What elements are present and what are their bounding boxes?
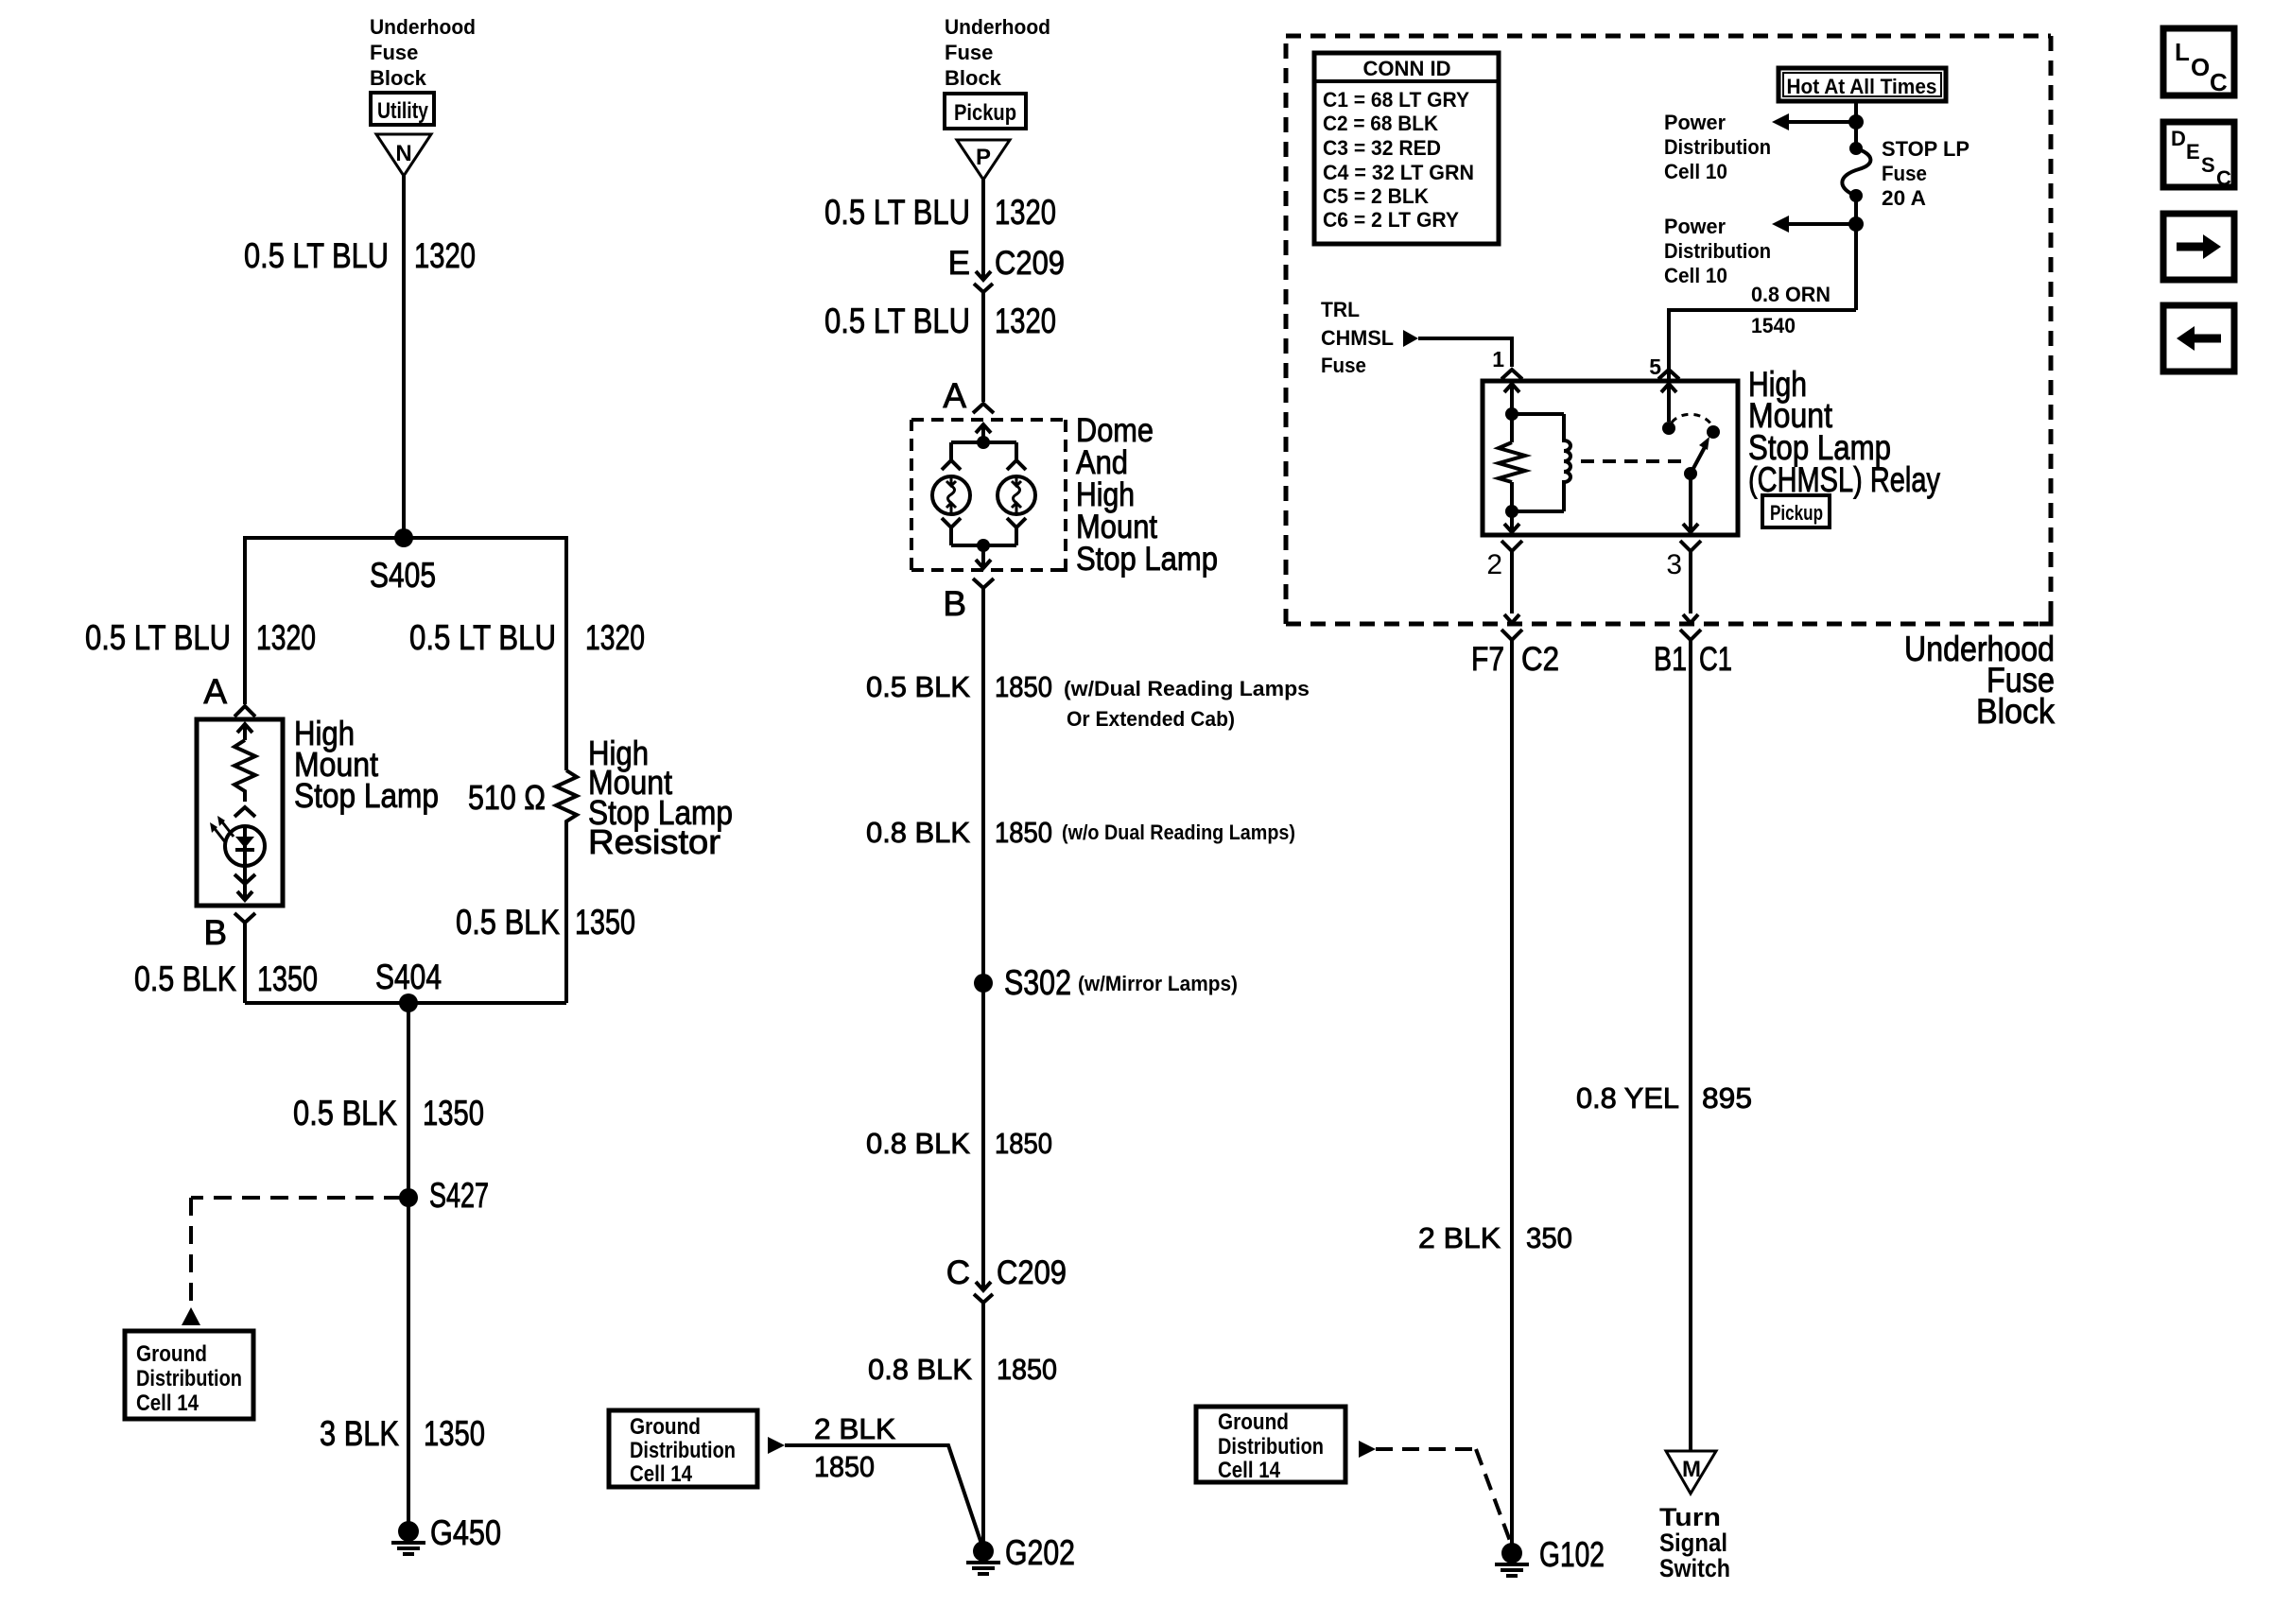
svg-text:0.5 BLK: 0.5 BLK — [134, 959, 236, 998]
svg-text:S404: S404 — [375, 958, 442, 996]
dome bulb 1 lower connector — [942, 518, 961, 545]
svg-text:1320: 1320 — [585, 618, 645, 657]
in-line connector E C209 — [948, 245, 1065, 292]
wire label 0.8 YEL 895 — [1576, 1081, 1752, 1114]
svg-text:895: 895 — [1702, 1081, 1752, 1114]
svg-text:0.5 LT BLU: 0.5 LT BLU — [244, 236, 389, 275]
svg-text:C209: C209 — [995, 245, 1065, 282]
svg-text:0.8 YEL: 0.8 YEL — [1576, 1081, 1679, 1114]
svg-text:Hot At All Times: Hot At All Times — [1787, 75, 1937, 98]
dome and high mount stop lamp dashed box — [911, 418, 1066, 422]
svg-text:O: O — [2191, 53, 2210, 81]
wire S404 to G450 — [407, 1003, 410, 1531]
wire from hot at all times — [1854, 101, 1858, 148]
wire C209 to dome lamp — [981, 292, 985, 402]
svg-text:N: N — [395, 141, 411, 166]
svg-text:3 BLK: 3 BLK — [320, 1414, 399, 1453]
relay switch blade — [1684, 437, 1709, 480]
svg-text:Power: Power — [1664, 111, 1726, 134]
svg-text:0.5 BLK: 0.5 BLK — [866, 670, 970, 703]
svg-text:C: C — [946, 1254, 970, 1291]
power distribution arrow 1 — [1772, 113, 1864, 130]
CONN ID table — [1314, 53, 1499, 244]
svg-text:Cell 10: Cell 10 — [1664, 160, 1727, 183]
wire S404 bracket — [245, 1001, 566, 1005]
svg-text:20 A: 20 A — [1882, 186, 1926, 210]
connector F7 C2 — [1471, 630, 1559, 1553]
svg-text:3: 3 — [1666, 549, 1682, 580]
svg-text:1850: 1850 — [995, 1127, 1052, 1160]
wire label 0.8 ORN 1540 — [1751, 283, 1831, 337]
svg-text:1850: 1850 — [995, 816, 1052, 849]
LOC icon box — [2163, 28, 2234, 96]
svg-text:Stop Lamp: Stop Lamp — [1076, 541, 1218, 578]
wire label 0.5 LT BLU 1320 right branch — [409, 618, 645, 657]
svg-text:1540: 1540 — [1751, 314, 1796, 337]
pin 2 connector Y — [1501, 541, 1522, 613]
wire label 0.8 BLK 1850 — [868, 1353, 1057, 1386]
underhood fuse block (pickup) label — [945, 15, 1050, 90]
svg-text:B: B — [203, 913, 227, 952]
svg-text:350: 350 — [1526, 1221, 1572, 1254]
lamp internal chevron — [234, 807, 255, 817]
svg-text:2 BLK: 2 BLK — [1418, 1221, 1501, 1254]
fuse STOP LP 20A — [1842, 142, 1870, 202]
dashed reference wire to G102 — [1376, 1447, 1476, 1451]
svg-text:1350: 1350 — [575, 903, 635, 942]
svg-text:Distribution: Distribution — [1218, 1434, 1324, 1460]
splice S405 — [370, 528, 436, 595]
power distribution cell 10 label 2 — [1664, 215, 1771, 287]
svg-text:C209: C209 — [997, 1254, 1067, 1291]
svg-text:1320: 1320 — [256, 618, 316, 657]
pin 1 connector chevron — [1501, 370, 1522, 379]
svg-text:(w/o Dual Reading Lamps): (w/o Dual Reading Lamps) — [1062, 821, 1295, 844]
turn signal switch label — [1659, 1503, 1730, 1582]
lamp LED diode — [235, 826, 254, 866]
svg-text:S: S — [2201, 153, 2215, 177]
high mount stop lamp (CHMSL) relay label — [1748, 365, 1940, 499]
wire dome lamp to G202 — [981, 588, 985, 1290]
svg-text:Fuse: Fuse — [1882, 162, 1927, 185]
svg-text:Distribution: Distribution — [136, 1366, 242, 1391]
wire label 0.5 LT BLU 1320 — [824, 193, 1056, 232]
ground distribution arrow right — [1359, 1441, 1376, 1458]
svg-text:Resistor: Resistor — [588, 822, 720, 861]
svg-text:C3 = 32 RED: C3 = 32 RED — [1323, 136, 1441, 160]
svg-text:B: B — [943, 584, 966, 623]
fuse label STOP LP Fuse 20 A — [1882, 137, 1969, 210]
wire label 0.5 BLK 1350 left — [134, 959, 318, 998]
relay coil links — [1512, 414, 1564, 511]
pin B connector chevron — [973, 579, 994, 588]
svg-text:0.8 BLK: 0.8 BLK — [868, 1353, 972, 1386]
svg-text:M: M — [1682, 1457, 1701, 1482]
DESC icon box — [2163, 122, 2234, 190]
relay pin 3 exit arrow — [1683, 474, 1698, 532]
dome bulb 2 branch — [1007, 442, 1026, 470]
wire pin 2 crossing arrow — [1504, 614, 1519, 623]
lamp internal exit arrow — [237, 866, 252, 900]
dome lamp top bar — [951, 436, 1016, 449]
svg-text:S405: S405 — [370, 556, 436, 595]
CHMSL relay box — [1483, 381, 1738, 535]
svg-text:1850: 1850 — [814, 1450, 875, 1483]
relay switch contact dots — [1662, 422, 1720, 439]
svg-text:A: A — [943, 376, 966, 415]
ground G202 — [966, 1533, 1075, 1574]
svg-text:0.8 BLK: 0.8 BLK — [866, 816, 970, 849]
svg-text:A: A — [203, 672, 227, 711]
dome and high mount stop lamp label — [1076, 412, 1218, 578]
svg-text:G202: G202 — [1005, 1533, 1075, 1572]
svg-text:1350: 1350 — [423, 1094, 484, 1132]
power distribution cell 10 label 1 — [1664, 111, 1771, 183]
svg-text:Stop Lamp: Stop Lamp — [294, 776, 439, 815]
svg-text:Distribution: Distribution — [1664, 239, 1771, 263]
in-line connector C C209 — [946, 1254, 1067, 1303]
svg-text:Ground: Ground — [1218, 1409, 1289, 1435]
TRL CHMSL fuse arrow — [1403, 330, 1418, 347]
ground G102 — [1495, 1535, 1605, 1576]
svg-text:1350: 1350 — [424, 1414, 485, 1453]
lamp light arrows — [210, 816, 234, 843]
svg-text:0.5 LT BLU: 0.5 LT BLU — [85, 618, 231, 657]
svg-text:TRL: TRL — [1321, 298, 1360, 321]
svg-text:C1 = 68 LT GRY: C1 = 68 LT GRY — [1323, 88, 1469, 112]
underhood fuse block label right — [1904, 630, 2055, 731]
svg-text:Fuse: Fuse — [370, 41, 418, 64]
svg-text:C6 = 2 LT GRY: C6 = 2 LT GRY — [1323, 208, 1459, 232]
resistor 510 ohm — [556, 770, 577, 1003]
wire label 2 BLK 350 — [1418, 1221, 1572, 1254]
dome bulb 1 — [932, 476, 970, 514]
splice S302 — [974, 963, 1238, 1002]
svg-text:1320: 1320 — [995, 193, 1056, 232]
wire 0.8 ORN 1540 to relay pin 5 — [1669, 310, 1856, 380]
svg-text:CHMSL: CHMSL — [1321, 326, 1394, 350]
svg-text:C5 = 2 BLK: C5 = 2 BLK — [1323, 184, 1429, 208]
svg-text:1: 1 — [1492, 347, 1504, 371]
svg-text:G450: G450 — [430, 1513, 501, 1552]
svg-text:510 Ω: 510 Ω — [468, 778, 546, 817]
power distribution arrow 2 — [1772, 216, 1864, 233]
dome bulb 2 lower connector — [1007, 518, 1026, 545]
lamp internal lower chevron — [234, 874, 255, 884]
svg-text:Block: Block — [945, 66, 1002, 90]
svg-text:C: C — [2216, 166, 2231, 190]
relay resistor — [1499, 442, 1525, 482]
pin 5 connector chevron — [1658, 370, 1679, 379]
connector chevron pin A — [973, 404, 994, 413]
svg-text:E: E — [948, 245, 970, 282]
svg-text:1850: 1850 — [995, 670, 1052, 703]
pin 3 connector Y — [1680, 541, 1701, 613]
svg-text:B1: B1 — [1654, 641, 1687, 678]
svg-text:0.8 ORN: 0.8 ORN — [1751, 283, 1831, 306]
relay pin 2 exit arrow — [1504, 482, 1519, 532]
wire label 0.5 LT BLU 1320 — [244, 236, 476, 275]
svg-text:Fuse: Fuse — [945, 41, 993, 64]
lamp internal entry arrow — [237, 724, 252, 740]
fuse block connector triangle N — [376, 134, 431, 176]
underhood fuse block dashed boundary — [1286, 34, 2051, 39]
svg-text:0.5 LT BLU: 0.5 LT BLU — [824, 302, 970, 340]
underhood fuse block (utility) label — [370, 15, 476, 90]
svg-text:Cell 10: Cell 10 — [1664, 264, 1727, 287]
wire C209 to G202 — [981, 1303, 985, 1553]
ground distribution cell 14 box (left) — [125, 1331, 253, 1419]
svg-text:Fuse: Fuse — [1321, 354, 1366, 377]
wire P to C209 — [981, 180, 985, 280]
relay Pickup box — [1762, 495, 1830, 527]
svg-text:Power: Power — [1664, 215, 1726, 238]
svg-text:0.5 LT BLU: 0.5 LT BLU — [409, 618, 556, 657]
wire label 0.8 BLK 1850 — [866, 1127, 1052, 1160]
wire label 0.5 LT BLU 1320 left branch — [85, 618, 316, 657]
ground distribution cell 14 box (middle) — [609, 1410, 757, 1487]
relay pin 5 entry arrow — [1661, 384, 1676, 422]
svg-text:Underhood: Underhood — [945, 15, 1050, 39]
svg-text:Underhood: Underhood — [370, 15, 476, 39]
wire label 3 BLK 1350 — [320, 1414, 485, 1453]
dome lamp entry arrow — [976, 424, 991, 442]
connector chevron pin A — [234, 706, 255, 717]
svg-text:Ground: Ground — [136, 1341, 207, 1367]
dome lamp bottom bar — [951, 539, 1016, 552]
right arrow icon box — [2163, 214, 2234, 280]
svg-text:C2: C2 — [1521, 641, 1559, 678]
svg-text:G102: G102 — [1539, 1535, 1605, 1574]
Pickup box — [945, 94, 1026, 129]
fuse block connector triangle P — [957, 140, 1010, 180]
splice S404 — [375, 958, 442, 1012]
wire label 2 BLK 1850 — [814, 1412, 895, 1483]
svg-text:F7: F7 — [1471, 641, 1504, 678]
svg-text:2 BLK: 2 BLK — [814, 1412, 895, 1445]
dome bulb 2 — [998, 476, 1035, 514]
wire 2 BLK 1850 to G202 — [785, 1445, 982, 1546]
relay coil junction dots — [1505, 407, 1518, 518]
left arrow icon box — [2163, 305, 2234, 371]
svg-text:Pickup: Pickup — [954, 100, 1016, 126]
svg-text:2: 2 — [1486, 549, 1502, 580]
svg-text:1350: 1350 — [257, 959, 318, 998]
svg-text:0.8 BLK: 0.8 BLK — [866, 1127, 970, 1160]
dome bulb 1 branch — [942, 442, 961, 470]
wire S405 bracket — [245, 538, 566, 770]
svg-text:STOP LP: STOP LP — [1882, 137, 1969, 161]
svg-text:(w/Mirror Lamps): (w/Mirror Lamps) — [1078, 972, 1238, 995]
wire pin 3 crossing arrow — [1683, 614, 1698, 623]
svg-text:Distribution: Distribution — [630, 1438, 736, 1463]
high mount stop lamp label — [294, 714, 439, 815]
wire label 0.5 BLK 1350 — [293, 1094, 484, 1132]
TRL CHMSL fuse label — [1321, 298, 1394, 377]
svg-text:Utility: Utility — [377, 98, 429, 124]
relay pin 1 entry arrow — [1504, 384, 1519, 442]
svg-text:Cell 14: Cell 14 — [1218, 1458, 1281, 1483]
svg-text:Distribution: Distribution — [1664, 135, 1771, 159]
wire TRL CHMSL fuse to relay pin 1 — [1418, 338, 1512, 367]
svg-text:Turn: Turn — [1659, 1503, 1721, 1531]
wire label 0.5 BLK 1350 right — [456, 903, 635, 942]
svg-text:Cell 14: Cell 14 — [630, 1461, 693, 1487]
wire label 0.5 LT BLU 1320 — [824, 302, 1056, 340]
svg-text:(w/Dual Reading Lamps: (w/Dual Reading Lamps — [1064, 677, 1310, 700]
svg-text:0.5 LT BLU: 0.5 LT BLU — [824, 193, 970, 232]
svg-text:1850: 1850 — [997, 1353, 1057, 1386]
relay coil to switch dashed link — [1581, 459, 1685, 463]
high mount stop lamp box — [197, 719, 283, 906]
ground G450 — [391, 1513, 501, 1554]
lamp LED circle — [225, 826, 265, 866]
wire fuse down — [1854, 196, 1858, 310]
svg-text:E: E — [2186, 140, 2200, 164]
Utility box — [371, 93, 434, 125]
svg-text:0.5 BLK: 0.5 BLK — [456, 903, 560, 942]
svg-text:Block: Block — [370, 66, 427, 90]
svg-text:P: P — [976, 145, 991, 170]
svg-text:C4 = 32 LT GRN: C4 = 32 LT GRN — [1323, 161, 1474, 184]
ground distribution cell 14 box (right) — [1196, 1407, 1345, 1483]
connector B1 C1 — [1654, 630, 1732, 1451]
svg-text:D: D — [2171, 127, 2186, 150]
svg-text:Cell 14: Cell 14 — [136, 1391, 200, 1416]
svg-text:1320: 1320 — [995, 302, 1056, 340]
svg-text:Switch: Switch — [1659, 1554, 1730, 1582]
high mount stop lamp resistor label — [588, 734, 733, 861]
svg-text:Signal: Signal — [1659, 1529, 1727, 1557]
svg-text:C2 = 68 BLK: C2 = 68 BLK — [1323, 112, 1438, 135]
svg-text:C1: C1 — [1699, 641, 1732, 678]
relay switch dashed arc — [1672, 414, 1711, 424]
svg-text:L: L — [2175, 38, 2190, 66]
svg-text:Block: Block — [1976, 692, 2055, 731]
svg-text:Or Extended Cab): Or Extended Cab) — [1067, 707, 1235, 731]
relay coil — [1564, 414, 1570, 511]
svg-text:S302: S302 — [1004, 963, 1071, 1002]
svg-text:Pickup: Pickup — [1770, 501, 1823, 525]
svg-text:CONN ID: CONN ID — [1363, 57, 1451, 80]
svg-text:C: C — [2210, 68, 2228, 96]
pin B connector Y — [234, 913, 255, 1003]
svg-text:0.5 BLK: 0.5 BLK — [293, 1094, 397, 1132]
lamp internal resistor — [234, 740, 255, 802]
splice S427 — [399, 1176, 489, 1215]
dashed reference wire to ground distribution — [182, 1198, 402, 1325]
svg-text:Ground: Ground — [630, 1414, 701, 1440]
svg-text:(CHMSL) Relay: (CHMSL) Relay — [1748, 460, 1940, 499]
wire label 0.5 BLK 1850 w/dual reading lamps — [866, 670, 1310, 731]
svg-text:1320: 1320 — [414, 236, 476, 275]
hot at all times box — [1778, 68, 1946, 101]
wire label 0.8 BLK 1850 w/o dual reading lamps — [866, 816, 1295, 849]
turn signal switch triangle M — [1666, 1451, 1716, 1494]
wire 1320 from N to S405 — [402, 176, 406, 538]
svg-text:S427: S427 — [429, 1176, 489, 1215]
ground distribution arrow — [768, 1437, 785, 1454]
dome lamp exit arrow — [976, 545, 991, 568]
svg-text:5: 5 — [1649, 354, 1661, 379]
